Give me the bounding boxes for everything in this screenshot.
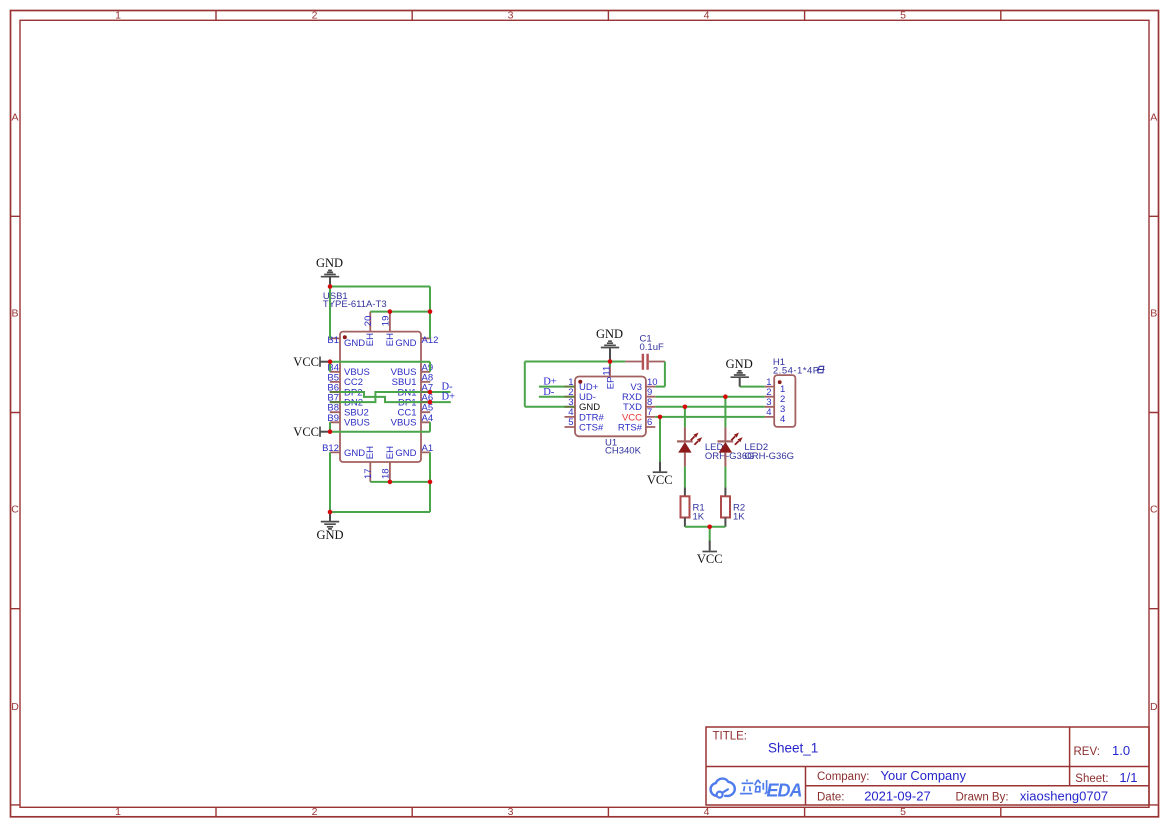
- svg-text:2021-09-27: 2021-09-27: [864, 789, 931, 804]
- svg-text:5: 5: [900, 806, 906, 818]
- svg-text:Sheet:: Sheet:: [1075, 773, 1108, 785]
- svg-text:19: 19: [380, 316, 391, 327]
- power flag VCC left upper: [293, 355, 330, 369]
- svg-text:C: C: [11, 504, 19, 516]
- svg-text:EH: EH: [365, 446, 376, 459]
- capacitor C1: [625, 333, 665, 369]
- svg-text:CTS#: CTS#: [579, 422, 604, 433]
- node TXD LED1 junction: [683, 405, 688, 410]
- svg-text:GND: GND: [395, 448, 416, 459]
- svg-text:D: D: [1150, 701, 1158, 713]
- svg-text:Company:: Company:: [817, 771, 869, 783]
- USB1 left pin numbers: [322, 335, 339, 454]
- svg-text:5: 5: [568, 417, 573, 428]
- TITLE BLOCK: [706, 727, 1149, 805]
- svg-text:17: 17: [363, 468, 374, 479]
- node A1 bottom junction: [428, 480, 433, 485]
- svg-text:5: 5: [900, 10, 906, 22]
- R2 top lead: [724, 487, 726, 496]
- wire D+ net (DP2 to DP1): [330, 392, 451, 402]
- wire VCC to B9/A4: [330, 422, 430, 431]
- wire B12 to bottom GND: [329, 452, 331, 512]
- svg-text:TITLE:: TITLE:: [713, 731, 748, 743]
- U1 right pin numbers: [647, 377, 658, 428]
- svg-text:4: 4: [704, 806, 710, 818]
- USB1 right pin numbers: [422, 335, 439, 454]
- svg-text:CH340K: CH340K: [605, 446, 642, 457]
- USB1 bottom pin stubs 17 18: [370, 462, 390, 482]
- svg-text:B9: B9: [327, 413, 339, 424]
- svg-text:xiaosheng0707: xiaosheng0707: [1020, 789, 1108, 804]
- LED LED2 ORH-G36G: [718, 427, 795, 466]
- H1 inner pin names 1-4: [780, 384, 785, 425]
- svg-text:1/1: 1/1: [1119, 770, 1137, 785]
- node A12 branch junction: [428, 309, 433, 314]
- LED LED1 ORH-G36G: [677, 427, 755, 466]
- EasyEDA (LCEDA) logo: [711, 779, 802, 801]
- logo glyph chuang (创): [755, 780, 767, 794]
- wire VCC U1 pin 7 to H1 pin 4: [655, 417, 765, 462]
- wire-over-stub overlaps: [330, 387, 575, 407]
- wire VCC to B4/A9: [330, 362, 430, 372]
- wire RXD U1 pin 9 to H1 pin 2: [655, 396, 765, 398]
- svg-text:A4: A4: [422, 413, 434, 424]
- svg-text:A: A: [11, 111, 18, 123]
- svg-text:D+: D+: [543, 377, 557, 388]
- C1 leads: [625, 361, 665, 363]
- svg-text:D: D: [11, 701, 19, 713]
- H1 pin stubs 1-4: [765, 387, 774, 417]
- wire TXD U1 pin 8 to H1 pin 3: [655, 406, 765, 408]
- svg-text:GND: GND: [596, 327, 623, 341]
- svg-text:TYPE-611A-T3: TYPE-611A-T3: [323, 299, 387, 310]
- svg-text:4: 4: [704, 10, 710, 22]
- svg-text:6: 6: [647, 417, 652, 428]
- wire LED1 to R1: [684, 467, 686, 488]
- LED2 cathode bar: [718, 440, 734, 442]
- wire D- to U1 pin 2: [539, 396, 565, 398]
- USB1 pin-1 marker: [343, 335, 347, 339]
- svg-text:4: 4: [780, 414, 785, 425]
- node VCC B4 junction: [328, 359, 333, 364]
- svg-text:1.0: 1.0: [1112, 743, 1130, 758]
- node pin18 junction: [388, 480, 393, 485]
- node GND bottom junction: [328, 510, 333, 515]
- U1 right pin stubs 10 9 8 7 6: [646, 387, 655, 427]
- svg-text:2: 2: [312, 10, 318, 22]
- node GND top junction: [328, 284, 333, 289]
- svg-text:GND: GND: [344, 448, 365, 459]
- node U1 GND/C1 junction: [608, 359, 613, 364]
- wire TXD junction down to LED1: [684, 407, 686, 427]
- H1 outer pin numbers: [766, 377, 771, 418]
- logo glyph li (立): [740, 780, 753, 794]
- wire C1 to U1 pin 10: [655, 362, 665, 387]
- op-amp/IC U1 CH340K: [565, 366, 658, 457]
- node VCC B9 junction: [328, 429, 333, 434]
- svg-text:VBUS: VBUS: [344, 418, 370, 429]
- logo cloud: [711, 779, 735, 796]
- svg-text:GND: GND: [316, 256, 343, 270]
- svg-text:GND: GND: [344, 338, 365, 349]
- LED1 emission arrows: [691, 433, 702, 445]
- ground flag above USB1: [316, 256, 343, 287]
- U1 left pin numbers: [568, 377, 573, 428]
- USB1 top pin stubs 20 19: [370, 312, 390, 332]
- junction dots: [328, 284, 728, 529]
- USB1 right pin stubs A12 A9 A8 A7 A6 A5 A4 A1: [421, 338, 430, 452]
- LED2 top lead: [724, 427, 726, 441]
- node U1 VCC branch junction: [658, 415, 663, 420]
- svg-text:B: B: [11, 308, 18, 320]
- connector USB1 TYPE-611A-T3: [322, 291, 438, 482]
- resistor R2 1K: [721, 487, 745, 527]
- wire U1 GND net to pin 3: [525, 362, 625, 407]
- LED1 triangle: [678, 442, 691, 453]
- svg-text:3: 3: [508, 10, 514, 22]
- C1 plates: [643, 354, 648, 370]
- svg-text:C: C: [1150, 504, 1158, 516]
- header H1 2.54-1*4P female: [765, 357, 825, 427]
- wire R1/R2 bottoms to VCC: [685, 527, 726, 541]
- svg-text:VCC: VCC: [647, 473, 673, 487]
- svg-text:EH: EH: [385, 333, 396, 346]
- power flag VCC below U1 pin 7: [647, 462, 673, 487]
- logo diagonal link: [722, 789, 728, 793]
- svg-text:18: 18: [380, 468, 391, 479]
- resistor R1 1K: [681, 487, 705, 527]
- ground flag below USB1: [316, 512, 343, 542]
- ground flag above H1: [726, 357, 753, 386]
- wire RXD junction down to LED2: [724, 397, 726, 428]
- svg-text:2.54-1*4P: 2.54-1*4P: [773, 366, 820, 377]
- LED1 bottom lead: [684, 453, 686, 467]
- U1 right pin names: [618, 382, 643, 433]
- svg-text:1: 1: [115, 10, 121, 22]
- U1 top pin stub 11 EP: [609, 367, 611, 377]
- svg-text:2: 2: [312, 806, 318, 818]
- H1 body: [774, 375, 795, 427]
- power flag VCC below R1/R2: [697, 541, 723, 567]
- svg-text:GND: GND: [316, 528, 343, 542]
- node A6 D+ junction: [428, 400, 433, 405]
- U1 left pin names: [579, 382, 605, 433]
- svg-text:ORH-G36G: ORH-G36G: [744, 451, 794, 462]
- svg-text:Sheet_1: Sheet_1: [768, 740, 818, 755]
- svg-text:1K: 1K: [733, 511, 745, 522]
- wire GND to USB1 top ring: [330, 287, 430, 339]
- svg-text:EP: EP: [606, 377, 617, 390]
- svg-text:B12: B12: [322, 443, 339, 454]
- LED2 bottom lead: [724, 453, 726, 467]
- LED2 emission arrows: [731, 433, 742, 445]
- svg-text:D+: D+: [442, 392, 456, 403]
- svg-text:REV:: REV:: [1074, 746, 1100, 758]
- svg-text:VCC: VCC: [293, 355, 319, 369]
- svg-text:Your Company: Your Company: [881, 768, 967, 783]
- svg-text:1K: 1K: [693, 511, 705, 522]
- svg-text:A: A: [1150, 111, 1157, 123]
- ground flag above U1: [596, 327, 623, 362]
- R1 top lead: [684, 487, 686, 496]
- R1 bottom lead: [684, 518, 686, 527]
- svg-text:3: 3: [508, 806, 514, 818]
- wire GND dot to EP stub: [609, 362, 611, 367]
- svg-text:A1: A1: [422, 443, 434, 454]
- svg-text:20: 20: [363, 316, 374, 327]
- svg-text:0.1uF: 0.1uF: [640, 342, 664, 353]
- USB1 left pin names: [344, 338, 370, 459]
- R2 bottom lead: [724, 518, 726, 527]
- svg-text:VBUS: VBUS: [391, 418, 417, 429]
- svg-text:RTS#: RTS#: [618, 422, 643, 433]
- LED2 triangle: [719, 442, 732, 453]
- svg-text:1: 1: [115, 806, 121, 818]
- R2 body: [721, 496, 730, 517]
- svg-text:GND: GND: [726, 357, 753, 371]
- wire D- net (DN2 to DN1): [330, 392, 451, 402]
- node pin19 junction: [388, 309, 393, 314]
- U1 pin-1 marker: [578, 380, 582, 384]
- wire A1 down to bottom GND: [330, 452, 430, 512]
- H1 pin-1 marker: [778, 380, 782, 384]
- U1 left pin stubs 1-5: [565, 387, 576, 427]
- logo wheel circle: [717, 792, 723, 798]
- LED1 cathode bar: [677, 440, 693, 442]
- node R1/R2 VCC junction: [707, 525, 712, 530]
- svg-text:Drawn By:: Drawn By:: [956, 792, 1009, 804]
- U1 body: [575, 377, 646, 437]
- svg-text:EH: EH: [385, 446, 396, 459]
- node RXD LED2 junction: [723, 394, 728, 399]
- wire D+ to U1 pin 1: [539, 386, 565, 388]
- svg-text:D-: D-: [543, 387, 555, 398]
- svg-text:EDA: EDA: [767, 780, 802, 800]
- R1 body: [681, 496, 690, 517]
- wire USB1 pins 20/19 to A12: [370, 312, 430, 339]
- node A7 D- junction: [428, 390, 433, 395]
- power flag VCC left lower: [293, 425, 330, 439]
- USB1 left pin stubs B1 B4 B5 B6 B7 B8 B9 B12: [330, 338, 340, 452]
- wire USB1 pins 17/18 to A1: [370, 481, 430, 483]
- svg-text:VCC: VCC: [293, 425, 319, 439]
- svg-text:GND: GND: [395, 338, 416, 349]
- wire LED2 to R2: [724, 467, 726, 488]
- svg-text:11: 11: [601, 366, 612, 376]
- svg-text:B: B: [1150, 308, 1157, 320]
- wire GND to H1 pin 1: [740, 386, 765, 388]
- svg-text:EH: EH: [365, 333, 376, 346]
- USB1 right pin names: [391, 338, 417, 459]
- svg-text:4: 4: [766, 407, 771, 418]
- LED1 top lead: [684, 427, 686, 441]
- svg-text:Date:: Date:: [817, 792, 845, 804]
- USB1 body: [340, 332, 421, 462]
- svg-text:VCC: VCC: [697, 552, 723, 566]
